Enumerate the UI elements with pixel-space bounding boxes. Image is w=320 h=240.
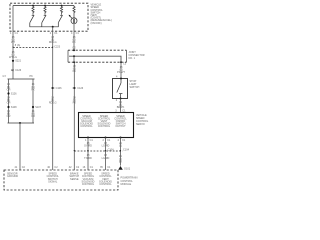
- svg-text:C106: C106: [56, 87, 63, 90]
- svg-text:PK: PK: [72, 41, 76, 44]
- resistor R1: [32, 6, 34, 15]
- label: switch signal wire: [49, 32, 58, 44]
- svg-text:CONTROL: CONTROL: [99, 183, 112, 186]
- splice S107: [32, 106, 42, 109]
- svg-text:C126: C126: [15, 69, 22, 72]
- powertrain control module dashed box: [4, 170, 118, 190]
- wire: joint connector to PCM (brake sense): [73, 56, 75, 170]
- splice S221: [12, 60, 22, 63]
- ground distribution bus upper: [3, 75, 35, 79]
- label: powertrain control module: [121, 176, 138, 186]
- connector C126 on left wire: [12, 69, 22, 72]
- splice S108: [7, 106, 17, 109]
- wire: switch signal down from bus: [52, 27, 54, 170]
- svg-text:PK/WT: PK/WT: [117, 71, 125, 74]
- svg-text:8 (A): 8 (A): [15, 44, 21, 47]
- svg-text:SIGNAL: SIGNAL: [48, 180, 58, 183]
- svg-text:OUTPUT: OUTPUT: [115, 125, 126, 128]
- label: sensor ground entry: [15, 166, 26, 169]
- label: switch signal mid: [49, 96, 57, 104]
- resistor R2: [44, 6, 46, 15]
- node: bus junction: [52, 26, 54, 28]
- wire: vacuum solenoid: [87, 138, 89, 171]
- speed control switch dashed box: [10, 3, 88, 31]
- svg-text:SWITCH: SWITCH: [130, 86, 140, 89]
- svg-text:OR: OR: [31, 115, 35, 118]
- svg-text:GROUND: GROUND: [7, 175, 18, 178]
- in-line connector C106 on switch signal wire: [51, 87, 62, 90]
- svg-text:S108: S108: [11, 106, 17, 109]
- label: servo feed: [115, 99, 126, 112]
- svg-text:CONTROL: CONTROL: [82, 183, 95, 186]
- vehicle speed control servo box: [79, 113, 134, 138]
- switch S2: [42, 15, 47, 22]
- svg-text:PK: PK: [73, 70, 77, 73]
- wire: stop lamp switch to servo: [120, 99, 122, 113]
- svg-text:C104: C104: [123, 148, 130, 151]
- svg-text:S126: S126: [11, 92, 17, 95]
- wire: left ground branch: [8, 79, 10, 123]
- svg-text:(ON/OFF): (ON/OFF): [91, 22, 102, 25]
- ground G101: [118, 166, 131, 170]
- label: servo ground wire: [118, 139, 126, 164]
- stop lamp switch contacts: [117, 78, 123, 100]
- label: servo pin functions: [80, 115, 127, 128]
- svg-text:C126: C126: [77, 87, 84, 90]
- label: left wire below connector: [9, 51, 17, 59]
- switch S3: [58, 15, 63, 22]
- label: right ground branch: [31, 83, 35, 91]
- svg-text:C223: C223: [54, 45, 61, 48]
- svg-text:LG/RD: LG/RD: [102, 157, 110, 160]
- wire: joint connector to stop lamp switch: [120, 62, 122, 78]
- in-line connector C104 dashed link: [74, 148, 130, 151]
- wire: right ground branch: [32, 79, 34, 123]
- node dots on top bus: [32, 5, 62, 7]
- svg-text:BK: BK: [119, 161, 123, 164]
- label: brake sense wire upper: [73, 65, 77, 73]
- label: PCM pin functions: [7, 173, 112, 186]
- label: stop lamp feed: [116, 63, 127, 79]
- vehicle speed control switch label: [91, 4, 113, 25]
- svg-text:OR: OR: [7, 115, 11, 118]
- switch common bus: [30, 23, 59, 27]
- switch S1: [30, 15, 35, 22]
- label: brake sense mid: [73, 96, 77, 104]
- label: below S126: [7, 96, 11, 104]
- label: switch signal PCM entry: [47, 166, 58, 169]
- svg-text:NO. 1: NO. 1: [129, 57, 136, 60]
- svg-text:RD/LG: RD/LG: [49, 102, 57, 105]
- svg-text:SERVO: SERVO: [136, 123, 145, 126]
- label: joint connector: [129, 51, 145, 60]
- label: vent solenoid wire: [100, 139, 111, 169]
- svg-text:G101: G101: [124, 167, 131, 170]
- wire: servo ground: [120, 138, 122, 166]
- label: below S108: [7, 110, 11, 118]
- svg-text:PK: PK: [30, 75, 34, 78]
- svg-text:SENSE: SENSE: [70, 178, 79, 181]
- wire: vent solenoid: [105, 138, 107, 171]
- label: left wire circuit: [10, 32, 20, 47]
- wire: on/off output to joint connector: [73, 24, 75, 50]
- svg-text:OR: OR: [7, 102, 11, 105]
- in-line connector dashed link C223: [12, 45, 60, 48]
- svg-text:MODULE: MODULE: [121, 183, 132, 186]
- svg-text:TN/RD: TN/RD: [84, 157, 92, 160]
- joint connector bus bar: [69, 49, 122, 63]
- top bus wire: [13, 5, 74, 7]
- svg-text:OR: OR: [7, 88, 11, 91]
- label: brake sense PCM entry: [69, 166, 80, 169]
- resistor R3: [60, 6, 62, 15]
- label: vehicle speed control servo: [136, 114, 149, 126]
- svg-text:RD/LG: RD/LG: [49, 41, 57, 44]
- servo pin nodes: [87, 137, 122, 139]
- svg-text:LG/RD: LG/RD: [102, 145, 110, 148]
- ground bus lower: [8, 122, 35, 124]
- label: on/off wire: [71, 32, 79, 49]
- label: below S107: [31, 110, 35, 118]
- stop lamp switch box: [113, 79, 128, 99]
- wire: left wire lower: [12, 48, 14, 80]
- svg-text:C104: C104: [108, 148, 115, 151]
- label: left ground branch: [7, 83, 11, 91]
- joint connector no.1 box: [68, 50, 127, 62]
- svg-text:CONTROL: CONTROL: [80, 125, 93, 128]
- wire: left switch output: [12, 6, 14, 48]
- svg-text:S221: S221: [15, 60, 21, 63]
- wire: sensor ground to PCM: [19, 123, 21, 170]
- svg-text:CONTROL: CONTROL: [98, 125, 111, 128]
- svg-text:S107: S107: [35, 106, 41, 109]
- label: stop lamp switch: [130, 80, 140, 89]
- indicator lamp: [69, 15, 77, 24]
- svg-text:PK: PK: [73, 102, 77, 105]
- splice S126: [7, 92, 17, 95]
- in-line connector C126 lower: [73, 87, 84, 90]
- svg-text:PK: PK: [31, 88, 35, 91]
- svg-text:(L): (L): [119, 145, 122, 148]
- svg-text:GY: GY: [3, 75, 7, 78]
- label: vacuum solenoid wire: [83, 139, 94, 169]
- resistor R4: [73, 6, 75, 18]
- svg-text:GY/RD: GY/RD: [84, 145, 92, 148]
